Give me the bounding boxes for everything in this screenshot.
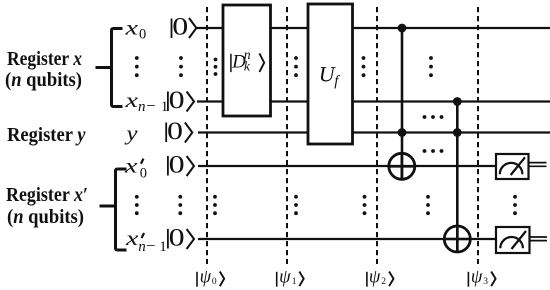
classical double wire from M1: [529, 163, 547, 167]
svg-text:(n qubits): (n qubits): [5, 69, 82, 91]
ket |0> on q2: [168, 87, 194, 114]
svg-text:x: x: [124, 16, 139, 40]
brace register x': [100, 169, 127, 250]
vdots ket column bottom: [178, 195, 182, 215]
svg-text:n: n: [138, 239, 146, 255]
label x'_0: [124, 154, 147, 182]
vdots after Uf: [362, 56, 366, 77]
dashed barrier psi2: [376, 7, 378, 264]
vdots between meters: [513, 195, 517, 215]
svg-text:0: 0: [172, 14, 188, 41]
vdots after psi0 bottom: [213, 195, 217, 215]
label x_0: [124, 16, 146, 43]
wire q4 (x'_0 line): [198, 165, 496, 167]
wire CNOT2 stem: [456, 102, 459, 253]
vdots x'-label column: [135, 195, 139, 215]
control dot on q2: [453, 97, 462, 106]
svg-text:1: 1: [292, 277, 297, 287]
svg-text:−: −: [146, 236, 155, 255]
vdots after psi2 bottom: [363, 195, 367, 215]
svg-text:0: 0: [212, 277, 217, 287]
label |psi_1>: [277, 268, 304, 288]
label x_n-1: [124, 88, 168, 115]
svg-text:0: 0: [139, 27, 146, 43]
dashed barrier psi3: [477, 7, 479, 264]
svg-text:0: 0: [140, 165, 147, 181]
gate box Dkn: [223, 5, 271, 116]
label |psi_2>: [367, 268, 394, 288]
cdots between controls: [423, 115, 444, 119]
wire q3 (y line): [198, 131, 550, 133]
svg-text:0: 0: [169, 225, 185, 252]
vdots after psi1 bottom: [294, 195, 298, 215]
svg-text:x: x: [124, 88, 139, 112]
CNOT target on q4: [389, 153, 415, 179]
svg-text:1: 1: [159, 239, 167, 255]
label |psi_3>: [468, 268, 495, 288]
label |Dkn>: [231, 47, 264, 73]
wire q2 (x_n-1 line): [197, 100, 550, 102]
svg-text:2: 2: [381, 277, 386, 287]
svg-text:0: 0: [169, 152, 185, 179]
svg-text:0: 0: [167, 118, 183, 145]
wire q1 (x_0 line): [197, 27, 550, 29]
cdots above q4: [423, 149, 444, 153]
svg-text:x: x: [125, 226, 140, 250]
svg-text:ψ: ψ: [471, 268, 483, 288]
svg-text:y: y: [124, 121, 138, 145]
wire CNOT1 stem: [401, 28, 404, 180]
ket |0> on q5: [168, 225, 194, 252]
vdots between stems top: [429, 56, 433, 77]
vdots ket column top: [179, 56, 183, 77]
dashed barrier psi0: [206, 7, 208, 264]
vdots after psi0 top: [214, 58, 218, 76]
svg-text:0: 0: [169, 87, 185, 114]
control dot on q3 (left): [398, 128, 407, 137]
svg-text:Register y: Register y: [7, 124, 86, 146]
svg-text:(n qubits): (n qubits): [7, 206, 84, 228]
wire q5 (x'_n-1 line): [198, 238, 496, 240]
svg-text:ψ: ψ: [369, 268, 381, 288]
control dot on q3 (right): [453, 128, 462, 137]
CNOT target on q5: [444, 226, 470, 252]
vdots between targets bottom: [426, 195, 430, 215]
svg-text:3: 3: [483, 277, 488, 287]
svg-text:ψ: ψ: [279, 268, 291, 288]
svg-text:x: x: [124, 154, 139, 178]
ket |0> on q1: [172, 14, 197, 41]
dashed barrier psi1: [286, 7, 288, 264]
control dot on q1: [398, 24, 407, 33]
measurement box M2: [496, 227, 530, 253]
ket |0> on q3: [166, 118, 192, 145]
classical double wire from M2: [530, 237, 548, 241]
measurement box M1: [496, 154, 529, 179]
ket |0> on q4: [168, 152, 194, 179]
label x'_n-1: [125, 226, 167, 255]
svg-text:Register x: Register x: [7, 48, 82, 70]
label Uf: [319, 61, 340, 89]
brace register x: [96, 29, 123, 107]
vdots between boxes top: [294, 56, 298, 77]
svg-text:−: −: [146, 96, 155, 115]
svg-text:k: k: [244, 59, 251, 74]
svg-text:n: n: [138, 99, 146, 115]
vdots x-label column top: [135, 56, 139, 77]
svg-text:ψ: ψ: [200, 268, 212, 288]
gate box Uf: [308, 4, 353, 144]
svg-text:Register x′: Register x′: [6, 184, 88, 206]
label |psi_0>: [197, 268, 224, 288]
